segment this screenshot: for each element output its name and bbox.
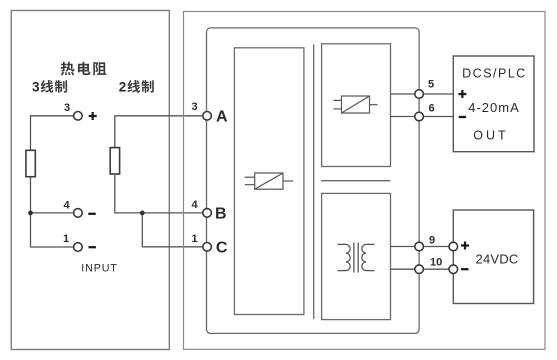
label 3 (terminal A) (192, 101, 198, 113)
label 9 (429, 234, 435, 246)
resistor RTD1 (3-wire sensor) (26, 150, 35, 176)
svg-text:3: 3 (64, 102, 70, 114)
wire: terminal 3 to RTD1 top (31, 116, 74, 151)
output converter symbol U2 (334, 96, 378, 113)
label + (24VDC) (461, 242, 469, 250)
terminal circle B (203, 209, 212, 218)
svg-text:1: 1 (63, 233, 69, 245)
svg-text:4-20mA: 4-20mA (468, 100, 520, 115)
terminal circle 9 (415, 242, 424, 251)
svg-text:INPUT: INPUT (81, 262, 117, 274)
svg-text:24VDC: 24VDC (476, 252, 519, 267)
wire: junction down and to terminal 1 (31, 213, 74, 247)
svg-text:A: A (216, 109, 228, 126)
label INPUT (81, 262, 117, 274)
power supply block (bottom right box) (322, 193, 391, 319)
terminal circle 6 (415, 112, 424, 121)
label 5 (428, 79, 434, 91)
label 6 (429, 103, 435, 115)
input amplifier block (tall box) (234, 48, 304, 315)
label 2线制 (2-wire) (119, 80, 154, 95)
isolation amplifier symbol U1 (245, 173, 294, 189)
svg-text:1: 1 (192, 233, 198, 245)
junction dot (3-wire) (28, 211, 33, 216)
right outer panel border (184, 12, 546, 350)
label 3线制 (3-wire) (32, 80, 67, 95)
label 1 (terminal C) (192, 233, 198, 245)
label B (215, 206, 227, 223)
svg-text:9: 9 (429, 234, 435, 246)
transformer T1 (338, 243, 375, 273)
output converter block (top right box) (322, 44, 391, 167)
svg-text:10: 10 (430, 257, 442, 269)
terminal circle 10 (24VDC side) (449, 265, 458, 274)
svg-text:C: C (216, 240, 228, 257)
wire: 2-wire top run to terminal A (115, 116, 203, 148)
label - (DCS) (459, 116, 466, 118)
label - (terminal 4) (88, 213, 95, 215)
isolation barrier line (313, 44, 315, 319)
wire: output + to terminal 5 and DCS (391, 93, 454, 95)
svg-text:4: 4 (192, 199, 199, 211)
junction dot (2-wire) (140, 211, 145, 216)
label 24VDC (476, 252, 519, 267)
label 4 (terminal B) (192, 199, 199, 211)
wire: RTD1 bottom to junction (30, 177, 32, 213)
terminal circle 5 (415, 90, 424, 99)
wire: power + to terminal 9 and 24VDC (391, 246, 454, 248)
svg-text:2: 2 (119, 80, 127, 95)
svg-text:3: 3 (32, 80, 40, 95)
label 3 (left) (64, 102, 70, 114)
terminal circle 9 (24VDC side) (449, 242, 458, 251)
label + (DCS) (458, 90, 466, 98)
label + (terminal 3) (89, 112, 97, 120)
label 4-20mA (468, 100, 520, 115)
svg-text:4: 4 (64, 199, 71, 211)
label 4 (left) (64, 199, 71, 211)
wire: branch junction down to terminal C (142, 213, 203, 247)
wire: output - to terminal 6 and DCS (391, 116, 454, 118)
label - (24VDC) (461, 268, 468, 270)
terminal circle 3 (74, 112, 83, 121)
label 10 (430, 257, 442, 269)
label OUT (473, 129, 508, 143)
DCS/PLC box (453, 56, 534, 152)
terminal circle 4 (74, 209, 83, 218)
label C (216, 240, 228, 257)
left input panel border (11, 11, 169, 350)
svg-text:DCS/PLC: DCS/PLC (462, 67, 527, 81)
svg-text:6: 6 (429, 103, 435, 115)
wire: power - to terminal 10 and 24VDC (391, 268, 454, 270)
label - (terminal 1) (89, 246, 96, 248)
resistor RTD2 (2-wire sensor) (110, 148, 119, 174)
svg-text:5: 5 (428, 79, 434, 91)
terminal circle 1 (74, 243, 83, 252)
barrier line between output and power (321, 180, 391, 182)
label DCS/PLC (462, 67, 527, 81)
label 1 (left) (63, 233, 69, 245)
svg-text:3: 3 (192, 101, 198, 113)
terminal circle 10 (415, 265, 424, 274)
24VDC box (453, 210, 533, 304)
svg-text:B: B (215, 206, 227, 223)
svg-text:OUT: OUT (473, 129, 508, 143)
terminal circle C (203, 243, 212, 252)
label A (216, 109, 228, 126)
terminal circle A (203, 112, 212, 121)
transmitter module body (207, 28, 420, 334)
wire: RTD2 bottom to terminal B run (115, 174, 203, 213)
wire: junction to terminal 4 (31, 212, 74, 214)
label 热电阻 (RTD title) (61, 62, 107, 76)
